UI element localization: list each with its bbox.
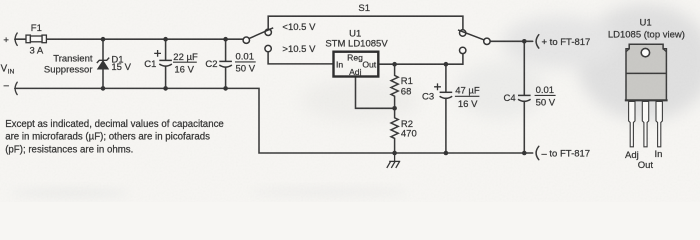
junction C1 bottom (163, 86, 168, 91)
- input terminal arc (15, 82, 17, 94)
note text (5, 119, 224, 156)
lever right (458, 30, 484, 40)
C1 plus sign (154, 50, 161, 57)
ground symbol (387, 153, 400, 168)
common pole circle right (484, 38, 490, 44)
pin In (656, 101, 662, 146)
contact circle <10.5V (265, 29, 271, 35)
package divider line (626, 72, 666, 74)
switch S1 right half (458, 30, 490, 54)
package tab (626, 44, 666, 100)
wire bypass top (268, 16, 463, 30)
common pole circle left (243, 37, 249, 43)
contact circle >10.5V (265, 45, 271, 51)
+ input terminal arc (15, 33, 17, 45)
capacitor C3 plates (440, 92, 453, 98)
contact circle lower right (460, 47, 466, 53)
capacitor C2 branch wire (225, 39, 227, 88)
fraction bars (173, 62, 556, 96)
U1 package top view (608, 18, 685, 172)
wire right common to output node (490, 40, 533, 42)
junction C1 top (163, 37, 168, 42)
junction R1/R2/Adj node (392, 106, 397, 111)
wire bottom input (15, 88, 533, 153)
fuse F1 (26, 35, 46, 43)
regulator U1 box (334, 52, 379, 77)
wire adj (356, 78, 395, 109)
pin Adj (629, 101, 635, 146)
wire top input (15, 38, 243, 40)
connector arc - to FT-817 (536, 146, 539, 159)
capacitor C1 branch wire (165, 39, 167, 88)
junction C4 top / output node (522, 39, 527, 44)
mounting hole (641, 48, 649, 56)
wire switch to regulator input (268, 52, 333, 64)
capacitor C1 plates (159, 60, 172, 66)
pin Out (642, 101, 648, 146)
contact circle upper right (460, 30, 466, 36)
junction C2 bottom (223, 86, 228, 91)
lever left (249, 28, 274, 39)
junction C3 top (444, 62, 449, 67)
junction C2 top (223, 37, 228, 42)
junction R1 top at U1 output (392, 62, 397, 67)
capacitor C4 plates (518, 95, 531, 101)
tab notches (626, 49, 666, 52)
wire regulator output (379, 54, 463, 65)
switch S1 left half (243, 28, 273, 52)
C3 plus sign (434, 83, 441, 90)
junction C3 bottom (444, 151, 449, 156)
capacitor C3 branch wire (445, 64, 447, 153)
connector arc + to FT-817 (536, 35, 539, 48)
junction D1 bottom (101, 86, 106, 91)
junction R2 bottom / ground (392, 151, 397, 156)
resistor R2 (391, 108, 398, 153)
junction D1 top (101, 37, 106, 42)
diode D1 branch wire (102, 39, 104, 88)
capacitor C4 branch wire (523, 41, 525, 153)
resistor R1 (391, 64, 398, 108)
package bottom edge (625, 99, 668, 101)
junction C4 bottom (522, 151, 527, 156)
capacitor C2 plates (219, 61, 232, 67)
diode D1 (transient suppressor) (97, 58, 109, 69)
